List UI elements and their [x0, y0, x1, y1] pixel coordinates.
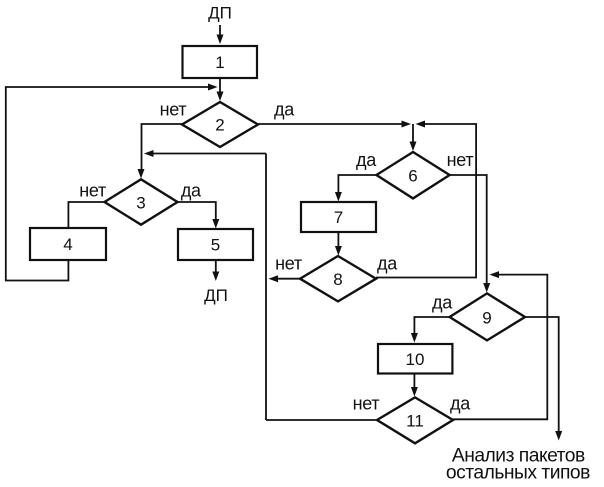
wire decision 2 нет: left then down into decision 3	[138, 124, 183, 179]
wire box 1 to decision 2	[217, 78, 224, 101]
svg-text:5: 5	[211, 236, 220, 255]
svg-text:остальных типов: остальных типов	[446, 463, 590, 484]
wire decision 8 да return: right, up, left into node above decision 6	[376, 124, 476, 278]
wire decision 8 нет into merge vertical	[269, 275, 301, 282]
svg-text:ДП: ДП	[204, 286, 228, 305]
svg-text:10: 10	[406, 350, 425, 369]
wire decision 3 нет to box 4	[68, 202, 104, 228]
decision 6	[376, 152, 449, 198]
svg-text:да: да	[432, 293, 453, 313]
svg-text:9: 9	[482, 308, 491, 327]
svg-text:да: да	[274, 100, 295, 120]
svg-text:нет: нет	[160, 99, 187, 119]
box 1	[183, 46, 258, 78]
svg-text:7: 7	[334, 208, 343, 227]
svg-text:да: да	[450, 394, 471, 414]
svg-text:нет: нет	[79, 180, 106, 200]
svg-text:да: да	[356, 150, 377, 170]
svg-text:2: 2	[215, 116, 224, 135]
wire merge vertical line (from decision 11 нет up to decision 3 feeder)	[265, 154, 267, 421]
svg-text:ДП: ДП	[208, 4, 232, 23]
svg-text:да: да	[377, 253, 398, 273]
wire box 5 to ДП exit	[212, 260, 219, 281]
wire decision 2 да to node above decision 6	[258, 121, 411, 128]
wire box 10 to decision 11	[411, 374, 418, 397]
wire decision 6 да to box 7	[335, 175, 377, 202]
box 5	[178, 229, 253, 260]
svg-text:да: да	[181, 180, 202, 200]
svg-text:4: 4	[63, 235, 72, 254]
wire node down into decision 6	[410, 124, 417, 151]
decision 2	[182, 102, 258, 147]
svg-text:нет: нет	[447, 150, 474, 170]
box 10	[378, 344, 452, 374]
junction arrow into wire between box 1 and decision 2	[208, 84, 218, 91]
wire decision 9 да to box 10	[411, 317, 450, 343]
decision 11	[377, 397, 453, 443]
wire decision 3 да to box 5	[178, 202, 220, 229]
svg-text:3: 3	[136, 193, 145, 212]
wire decision 6 нет: right then down into decision 9	[450, 175, 491, 293]
decision 9	[450, 293, 525, 340]
wire decision 11 нет into merge vertical	[266, 419, 377, 421]
svg-text:1: 1	[215, 53, 224, 72]
wire box 4 loop: down, left, up, right into node above decision 2	[6, 87, 209, 281]
wire ДП start to box 1	[217, 25, 224, 44]
svg-text:8: 8	[333, 270, 342, 289]
svg-text:6: 6	[408, 166, 417, 185]
wire decision 9 нет down to analysis text	[525, 317, 562, 441]
decision 8	[300, 256, 376, 301]
svg-text:11: 11	[406, 411, 424, 430]
box 4	[30, 228, 106, 260]
junction arrow from return wire into node above decision 6	[416, 121, 426, 128]
wire box 7 to decision 8	[335, 232, 342, 256]
svg-text:нет: нет	[275, 253, 302, 273]
wire decision 11 да return: right, up, left into decision 9 feeder	[453, 271, 547, 419]
wire merge to decision 3 feeder with arrow	[144, 150, 266, 157]
svg-text:нет: нет	[353, 394, 380, 414]
decision 3	[105, 179, 178, 224]
box 7	[301, 202, 376, 232]
